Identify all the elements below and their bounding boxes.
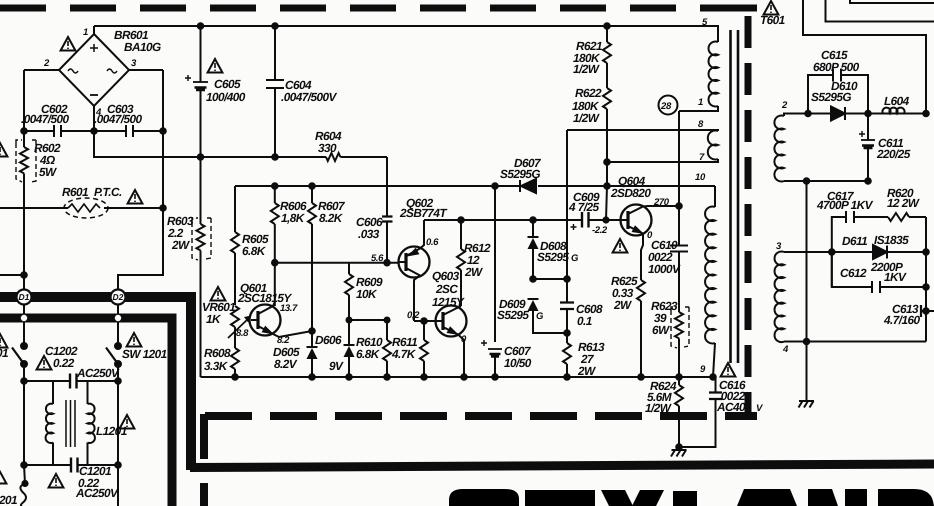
- warning triangle above C616: [721, 363, 736, 377]
- wire R602 bottom to connector D1: [23, 275, 25, 290]
- capacitor C604: [266, 26, 284, 157]
- warning triangle left of C1202 value: [37, 356, 52, 370]
- resistor R605: [231, 186, 239, 305]
- resistor R621: [603, 26, 611, 63]
- wire R609 bottom to base column: [349, 319, 387, 321]
- warning triangle above SW1201: [127, 333, 142, 347]
- big bottom text (letter tops of wide extended font): [449, 489, 934, 506]
- svg-text:270: 270: [653, 197, 670, 208]
- svg-text:1/2W: 1/2W: [573, 111, 600, 125]
- svg-text:D611: D611: [842, 234, 867, 248]
- warning triangle above C605: [208, 59, 223, 73]
- svg-text:1K: 1K: [206, 312, 222, 326]
- junction: [638, 374, 644, 380]
- svg-text:G: G: [536, 311, 544, 322]
- secondary winding pin2: [774, 114, 926, 182]
- svg-text:R601: R601: [62, 185, 88, 199]
- secondary winding pin3-pin4: [775, 251, 926, 342]
- svg-text:SW 1201: SW 1201: [122, 347, 167, 361]
- svg-text:3.3K: 3.3K: [204, 359, 229, 373]
- transformer T601 winding pin10-pin9: [705, 186, 715, 377]
- svg-text:1/2W: 1/2W: [645, 401, 672, 415]
- switch SW1201 pole 2: [106, 343, 121, 381]
- letter Y top: [601, 490, 633, 506]
- junction: [710, 374, 716, 380]
- svg-text:1215Y: 1215Y: [432, 295, 465, 309]
- letter D top: [878, 489, 934, 506]
- fuse squiggle at bottom left: [24, 465, 25, 484]
- warning triangle above VR601: [211, 287, 226, 301]
- ground (hot side): [671, 450, 687, 457]
- resistor R624: [675, 377, 683, 447]
- junction: [676, 374, 682, 380]
- svg-text:680P 500: 680P 500: [813, 60, 860, 74]
- svg-text:1000V: 1000V: [648, 262, 681, 276]
- svg-text:S5295: S5295: [537, 250, 569, 264]
- capacitor C613 (to right edge): [921, 305, 934, 317]
- junction: [804, 339, 810, 345]
- inductor L604: [883, 108, 905, 114]
- svg-text:Q603: Q603: [432, 269, 460, 283]
- resistor R609: [345, 263, 353, 320]
- svg-text:5W: 5W: [39, 165, 57, 179]
- svg-text:V: V: [756, 403, 763, 414]
- capacitor C1202: [24, 374, 118, 389]
- svg-text:8: 8: [698, 119, 704, 130]
- resistor R603 with dashed bracket: [192, 157, 211, 377]
- wire: pin3 down right side: [162, 70, 164, 131]
- letter A top: [737, 489, 797, 506]
- transistor Q603 2SC1215Y: [436, 306, 467, 378]
- svg-text:220/25: 220/25: [876, 147, 911, 161]
- svg-text:12 2W: 12 2W: [887, 196, 920, 210]
- R604 output corner down to bus: [386, 157, 388, 186]
- thick shield bar 1 (with D1 D2 connectors): [0, 297, 191, 470]
- svg-text:-2.2: -2.2: [592, 225, 608, 236]
- capacitor C605 (electrolytic): [185, 26, 208, 157]
- svg-text:G: G: [571, 253, 579, 264]
- diode D609: [528, 299, 568, 333]
- svg-text:C605: C605: [214, 77, 241, 91]
- svg-text:330: 330: [318, 141, 337, 155]
- transistor Q601 2SC1815Y: [250, 263, 313, 337]
- transformer T601 primary winding pin5-pin1: [679, 26, 718, 111]
- bus wire y186: [235, 185, 715, 187]
- svg-text:AC250V: AC250V: [76, 366, 120, 380]
- svg-text:5.6: 5.6: [371, 253, 384, 264]
- wire: Q601 collector node to Q602 base (y262.7): [275, 262, 399, 264]
- zener D606: [344, 320, 355, 377]
- svg-text:01: 01: [0, 346, 8, 360]
- svg-text:1,8K: 1,8K: [281, 211, 306, 225]
- junction: [461, 374, 467, 380]
- svg-text:1KV: 1KV: [884, 270, 907, 284]
- svg-text:8.2K: 8.2K: [319, 211, 344, 225]
- connector D2: [111, 290, 126, 305]
- svg-text:28: 28: [660, 101, 672, 112]
- svg-text:S5295G: S5295G: [811, 90, 851, 104]
- potentiometer VR601: [228, 306, 252, 348]
- resistor R606: [271, 186, 279, 263]
- svg-text:4: 4: [782, 344, 789, 355]
- svg-text:9: 9: [700, 364, 706, 375]
- resistor R601 PTC (dashed ellipse): [0, 198, 163, 218]
- snubber loop C617 / R620: [832, 211, 926, 342]
- zener D605: [307, 331, 318, 377]
- junction: [421, 374, 427, 380]
- svg-text:0: 0: [461, 334, 467, 345]
- diode D607 (on bus, cathode left): [520, 179, 536, 193]
- degauss wire to left edge at y=275: [0, 274, 24, 276]
- transformer T601 feedback winding pin8-pin7: [567, 130, 718, 162]
- svg-text:4700P 1KV: 4700P 1KV: [816, 198, 874, 212]
- node: top rail junction dots: [198, 23, 204, 29]
- svg-text:1: 1: [83, 27, 88, 38]
- svg-text:2SB774T: 2SB774T: [399, 206, 448, 220]
- svg-text:S5295G: S5295G: [500, 167, 540, 181]
- diode D610: [831, 107, 845, 121]
- letter T top: [525, 490, 595, 506]
- wire D608 node to C608 node: [533, 278, 567, 280]
- svg-text:2W: 2W: [613, 298, 632, 312]
- junction: [346, 374, 352, 380]
- junction: [492, 374, 498, 380]
- svg-text:2W: 2W: [171, 238, 190, 252]
- hot ground rail y157: [94, 131, 387, 157]
- connector D1: [17, 290, 32, 305]
- secondary return wire to ground: [806, 181, 808, 342]
- junction: [530, 217, 536, 223]
- svg-text:AC250V: AC250V: [75, 486, 119, 500]
- svg-text:BA10G: BA10G: [124, 40, 161, 54]
- resistor R604 330 (in series in rail): [326, 153, 340, 161]
- svg-text:10: 10: [695, 172, 706, 183]
- capacitor C606: [382, 186, 393, 263]
- junction: [923, 284, 929, 290]
- resistor R610: [383, 320, 391, 377]
- svg-text:3: 3: [776, 241, 782, 252]
- T601 warning triangle: [764, 1, 779, 15]
- svg-text:4.7K: 4.7K: [391, 347, 417, 361]
- svg-text:2W: 2W: [464, 265, 483, 279]
- junction: [21, 462, 27, 468]
- svg-text:L1201: L1201: [96, 424, 127, 438]
- junction: [309, 183, 315, 189]
- transformer core lines: [731, 30, 739, 363]
- svg-text:2W: 2W: [577, 364, 596, 378]
- svg-text:2: 2: [43, 58, 50, 69]
- top rail +B wire: [94, 25, 718, 27]
- resistor R608: [231, 348, 239, 377]
- drive wire y220: [424, 219, 621, 221]
- junction: [564, 276, 570, 282]
- junction: [923, 308, 929, 314]
- capacitor C611 (electrolytic): [859, 114, 875, 182]
- choke L1201: [46, 381, 95, 465]
- svg-text:D606: D606: [315, 333, 342, 347]
- svg-text:13.7: 13.7: [280, 303, 298, 314]
- wire: pin3 column down to degauss row: [118, 131, 163, 290]
- diode D608: [528, 220, 539, 279]
- letter N top: [808, 489, 838, 506]
- resistor R623 with dashed bracket: [671, 307, 689, 377]
- svg-text:8.2V: 8.2V: [274, 357, 298, 371]
- resistor R613: [563, 333, 571, 377]
- resistor R607: [308, 186, 316, 331]
- svg-text:.0047/500V: .0047/500V: [281, 90, 338, 104]
- svg-text:R608: R608: [204, 346, 231, 360]
- svg-text:P.T.C.: P.T.C.: [94, 185, 122, 199]
- bottom dashed border line: [205, 412, 757, 420]
- svg-text:1201: 1201: [0, 493, 17, 506]
- svg-text:6.8K: 6.8K: [242, 244, 267, 258]
- ground (secondary): [799, 342, 815, 408]
- transistor Q602 2SB774T: [399, 220, 430, 321]
- wire: Q603 base row: [414, 320, 436, 322]
- warning triangle left edge near switch: [0, 334, 7, 348]
- capacitor C1201: [24, 381, 118, 506]
- svg-text:0.6: 0.6: [426, 237, 439, 248]
- svg-text:AC400: AC400: [716, 400, 752, 414]
- resistor R625: [637, 280, 645, 377]
- warning triangle left edge near R602: [0, 143, 7, 157]
- capacitor C615 loop: [808, 69, 868, 114]
- svg-text:R622: R622: [575, 86, 602, 100]
- isolation barrier: vertical dashed line: [745, 16, 752, 420]
- junction: [232, 374, 238, 380]
- thick shield bar 2: [0, 318, 172, 506]
- svg-text:1/2W: 1/2W: [573, 62, 600, 76]
- warning triangle right of PTC label: [128, 190, 143, 204]
- svg-text:2: 2: [781, 100, 788, 111]
- svg-text:10/50: 10/50: [504, 356, 532, 370]
- svg-text:6W: 6W: [652, 323, 670, 337]
- warning triangle right of L1201: [120, 415, 135, 429]
- capacitor C612: [832, 252, 926, 293]
- resistor R611: [420, 321, 428, 377]
- resistor R602 with dashed bracket: [16, 131, 36, 275]
- letter S top: [449, 489, 519, 506]
- svg-text:4.7/160: 4.7/160: [883, 313, 920, 327]
- svg-text:T601: T601: [760, 13, 785, 27]
- svg-text:.033: .033: [358, 227, 380, 241]
- junction: [865, 178, 871, 184]
- circled 28 test point: [659, 96, 678, 115]
- junction: [530, 276, 536, 282]
- junction: [604, 159, 610, 165]
- transistor Q604 2SD820: [621, 205, 680, 281]
- svg-text:0.22: 0.22: [53, 356, 75, 370]
- svg-text:4 7/25: 4 7/25: [568, 200, 599, 214]
- svg-text:D1: D1: [19, 292, 30, 302]
- junction: [272, 183, 278, 189]
- wire transformer pin1 down to collector: [678, 111, 680, 206]
- junction: [564, 374, 570, 380]
- main circuit bottom rail (hot gnd): [201, 376, 714, 378]
- svg-text:D2: D2: [113, 292, 124, 302]
- warning triangle left edge bottom: [0, 470, 6, 484]
- bridge rectifier BR601: [24, 26, 163, 131]
- warning triangle left of C1201: [49, 474, 64, 488]
- letter L top: [673, 491, 697, 506]
- svg-text:S5295: S5295: [497, 308, 529, 322]
- capacitor C609 (electrolytic, in drive wire): [571, 212, 589, 230]
- junction: [458, 217, 464, 223]
- svg-text:6.8K: 6.8K: [356, 347, 381, 361]
- capacitor C608: [560, 279, 574, 333]
- capacitor C610: [670, 206, 688, 312]
- feedback wire from pin8 down: [566, 130, 568, 279]
- svg-text:8.8: 8.8: [236, 328, 249, 339]
- bottom dashed border corner leg: [200, 414, 208, 506]
- thick shield bar 1 bottom horizontal to right edge: [190, 464, 934, 468]
- hot/cold isolation border: top dashed line: [0, 5, 746, 12]
- capacitor C603: [94, 125, 163, 137]
- warning triangle near BR601: [61, 37, 76, 51]
- svg-text:C612: C612: [840, 266, 867, 280]
- wire: bus to C607 column: [494, 186, 496, 342]
- svg-text:0,2: 0,2: [407, 310, 420, 321]
- capacitor C616 Y-cap: [679, 377, 722, 447]
- resistor R612: [457, 220, 465, 306]
- svg-text:100/400: 100/400: [206, 90, 246, 104]
- svg-text:.0047/500: .0047/500: [94, 112, 143, 126]
- svg-text:2SC: 2SC: [435, 282, 458, 296]
- svg-text:2SD820: 2SD820: [610, 186, 651, 200]
- svg-text:.0047/500: .0047/500: [21, 112, 70, 126]
- svg-text:3: 3: [131, 58, 137, 69]
- junction: [676, 444, 682, 450]
- svg-text:10K: 10K: [356, 287, 378, 301]
- wire: pin2 down to C602 row: [23, 70, 25, 131]
- switch pole 1: [12, 343, 27, 381]
- capacitor C607 (electrolytic): [481, 340, 502, 377]
- junction: [829, 249, 835, 255]
- wires to top edge (secondary outputs): [803, 0, 926, 114]
- svg-text:0.1: 0.1: [577, 314, 592, 328]
- svg-text:IS1835: IS1835: [874, 233, 909, 247]
- lower-left: wire D1 through shield bars: [20, 304, 28, 345]
- resistor R622: [603, 63, 611, 220]
- svg-text:L604: L604: [884, 94, 910, 108]
- lower-left: wire D2 through shield bars: [114, 304, 122, 345]
- junction: [309, 328, 315, 334]
- svg-text:1: 1: [698, 97, 703, 108]
- svg-text:9V: 9V: [329, 359, 344, 373]
- junction: [384, 374, 390, 380]
- junction: [805, 111, 811, 117]
- node: C602/C603 junction dots: [21, 128, 27, 134]
- capacitor C602: [24, 125, 94, 137]
- diode D611 IS1835: [873, 245, 887, 259]
- warning triangle below Q604: [613, 239, 628, 253]
